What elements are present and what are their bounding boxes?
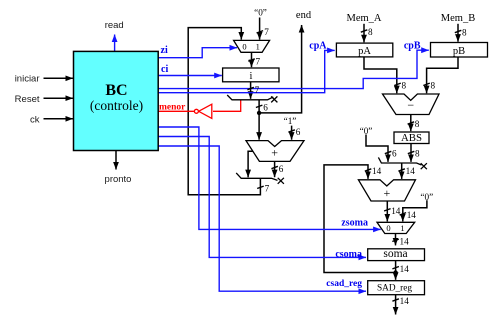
bus width slash: 7 concatenate T2 out (257, 186, 264, 188)
svg-text:pronto: pronto (105, 174, 132, 185)
svg-text:Reset: Reset (15, 94, 40, 105)
wire: Mem_B input into register pB (457, 24, 459, 42)
svg-text:SAD_reg: SAD_reg (377, 284, 412, 294)
bus width slash: 14 adder A2 out (384, 209, 391, 211)
svg-text:14: 14 (400, 237, 410, 247)
svg-text:14: 14 (372, 166, 382, 176)
mux M1 (234, 40, 270, 52)
ABS block (394, 132, 429, 144)
svg-text:8: 8 (415, 119, 420, 129)
register pB (431, 43, 488, 58)
svg-text:−: − (407, 98, 414, 112)
svg-text:14: 14 (400, 296, 410, 306)
wire: ABS output into concatenate T3 (410, 144, 412, 162)
wire: feedback i+1 to mux M1 input 0 (188, 28, 260, 195)
wire: node N2 down into register SAD_reg (395, 273, 397, 280)
svg-text:cpA: cpA (309, 41, 327, 52)
node N1 junction dot (257, 111, 261, 115)
svg-text:+: + (384, 186, 391, 200)
wire: subtractor S1 output to ABS (410, 115, 412, 132)
svg-text:14: 14 (407, 210, 417, 220)
bus width slash: 14 SAD_reg out (392, 299, 399, 301)
wire: ci control from BC to register i (158, 75, 222, 77)
bus width slash: 7 on "0" constant (257, 31, 264, 33)
bus width slash: 14 concatenate T3 out (398, 169, 405, 171)
svg-text:“0”: “0” (360, 126, 373, 136)
svg-text:Mem_B: Mem_B (441, 13, 475, 24)
svg-text:pA: pA (358, 46, 371, 57)
svg-text:zi: zi (161, 45, 168, 56)
svg-text:14: 14 (400, 264, 410, 274)
register soma (368, 249, 425, 261)
svg-text:menor: menor (159, 103, 186, 113)
svg-text:8: 8 (431, 81, 436, 91)
svg-text:cpB: cpB (404, 41, 421, 52)
svg-text:7: 7 (256, 57, 261, 67)
wire: node N1 down to adder A1 left input (258, 113, 260, 140)
wire: adder A1 sum output to concatenate T2 (274, 162, 276, 178)
wire: register i output to truncate T1 (250, 82, 252, 99)
wire: mux M2 output to register soma (395, 234, 397, 246)
wire: adder A1 carry out to concatenate T2 (248, 151, 253, 177)
wire: constant "0" into mux M1 input 1 (259, 18, 261, 40)
wire: csad_reg control from BC to register SAD_reg (158, 146, 366, 291)
mux M2 (377, 222, 415, 233)
bus width slash: 6 constant "0" into T3 (385, 151, 392, 153)
wire: ck input to BC (44, 118, 73, 120)
bus width slash: 7 mux M1 out (248, 59, 255, 61)
wire: constant "0" into concatenate T3 (366, 135, 388, 162)
node N2 junction dot (393, 270, 397, 274)
svg-text:0: 0 (242, 42, 246, 52)
svg-text:7: 7 (255, 85, 260, 95)
svg-text:ABS: ABS (401, 132, 422, 144)
bus width slash: 8 subtractor left in (394, 83, 401, 85)
register i (223, 68, 279, 82)
bus width slash: 6 constant "1" (288, 130, 295, 132)
svg-text:(controle): (controle) (90, 98, 143, 113)
bus width slash: 7 register i out (247, 87, 254, 89)
wire: concatenate T3 output to adder A2 right input (401, 163, 403, 179)
inverter NOT gate (red) (199, 104, 212, 118)
wire: csoma control from BC to register soma (158, 137, 366, 258)
wire: cpB control from BC to register pB (158, 50, 429, 88)
svg-text:1: 1 (256, 42, 260, 52)
bus width slash: 8 subtractor right in (423, 83, 430, 85)
svg-text:end: end (296, 10, 312, 21)
svg-text:csoma: csoma (335, 249, 362, 260)
bus width slash: 14 soma feedback (365, 169, 372, 171)
wire: menor signal tap from truncate T1 (red) (213, 100, 241, 111)
wire: constant "1" into adder A1 right input (291, 126, 293, 140)
svg-text:ci: ci (161, 64, 168, 75)
wire: register soma output to node N2 (395, 261, 397, 273)
wire: cpA control from BC to register pA (158, 50, 335, 92)
wire: register pA output to subtractor S1 left input (364, 57, 397, 93)
wire: read control from BC (blue) (114, 35, 116, 52)
bus width slash: 14 mux M2 out (392, 239, 399, 241)
wire: truncate T1 output down to node N1 (258, 100, 260, 113)
control block BC (controle) (74, 51, 159, 150)
svg-text:6: 6 (279, 164, 284, 174)
svg-text:pB: pB (453, 46, 465, 57)
bus width slash: 14 constant "0" into M2 (400, 213, 407, 215)
concatenate T3 ("0" &amp; ABS to 14 bits) (378, 157, 421, 165)
bus width slash: 6 adder A1 out (271, 166, 278, 168)
svg-text:+: + (271, 145, 278, 159)
adder A1 (246, 141, 304, 162)
bus width slash: 8 ABS out (408, 151, 415, 153)
wire: Reset input to BC (44, 97, 73, 99)
wire: node N1 right and up as end output (259, 25, 302, 113)
wire: soma feedback to adder A2 left input (324, 165, 396, 273)
subtractor S1 (383, 94, 440, 115)
svg-text:Mem_A: Mem_A (347, 13, 382, 24)
wire: mux M1 output to register i (251, 52, 253, 67)
bus width slash: 8 Mem_B (455, 30, 462, 32)
svg-text:soma: soma (383, 248, 407, 260)
svg-text:7: 7 (264, 27, 269, 37)
wire: adder A2 output to mux M2 input 0 (386, 201, 388, 221)
svg-text:“1”: “1” (284, 116, 297, 126)
wire: register pB output to subtractor S1 right input (427, 57, 458, 93)
wire: Mem_A input into register pA (363, 24, 365, 43)
svg-text:i: i (250, 71, 253, 82)
wire: register SAD_reg output (395, 295, 397, 315)
svg-text:iniciar: iniciar (15, 74, 40, 85)
svg-text:8: 8 (462, 28, 467, 38)
bus width slash: 8 subtractor out (408, 122, 415, 124)
truncate T1 (7 to 6 bits, x = dropped msb) (227, 95, 273, 100)
svg-text:14: 14 (406, 166, 416, 176)
svg-text:BC: BC (105, 82, 127, 99)
bus width slash: 6 truncate T1 out (256, 105, 263, 107)
svg-text:6: 6 (296, 127, 301, 137)
svg-text:read: read (105, 20, 124, 31)
bus width slash: 8 Mem_A (361, 30, 368, 32)
svg-text:zsoma: zsoma (341, 218, 368, 229)
svg-text:8: 8 (402, 81, 407, 91)
wire: constant "0" into mux M2 input 1 (403, 200, 427, 221)
register SAD_reg (368, 281, 425, 295)
adder A2 (358, 180, 415, 201)
svg-text:8: 8 (368, 27, 373, 37)
svg-text:“0”: “0” (254, 8, 267, 18)
svg-text:6: 6 (392, 149, 397, 159)
concatenate T2 (carry &amp; 6 bits to 7 bits) (236, 173, 277, 181)
svg-text:0: 0 (386, 223, 390, 233)
svg-text:1: 1 (400, 223, 404, 233)
wire: zi control from BC to mux M1 (158, 48, 237, 58)
svg-text:ck: ck (30, 115, 40, 126)
wire: menor into BC (red) (158, 110, 194, 112)
svg-text:7: 7 (265, 184, 270, 194)
wire: zsoma control from BC to mux M2 (158, 127, 381, 229)
svg-text:csad_reg: csad_reg (326, 279, 362, 289)
svg-text:“0”: “0” (420, 192, 433, 202)
svg-text:8: 8 (415, 149, 420, 159)
svg-text:14: 14 (391, 206, 401, 216)
register pA (336, 43, 392, 57)
bus width slash: 14 soma out (392, 267, 399, 269)
wire: pronto output from BC (115, 151, 117, 170)
svg-text:6: 6 (263, 103, 268, 113)
wire: iniciar input to BC (44, 77, 73, 79)
